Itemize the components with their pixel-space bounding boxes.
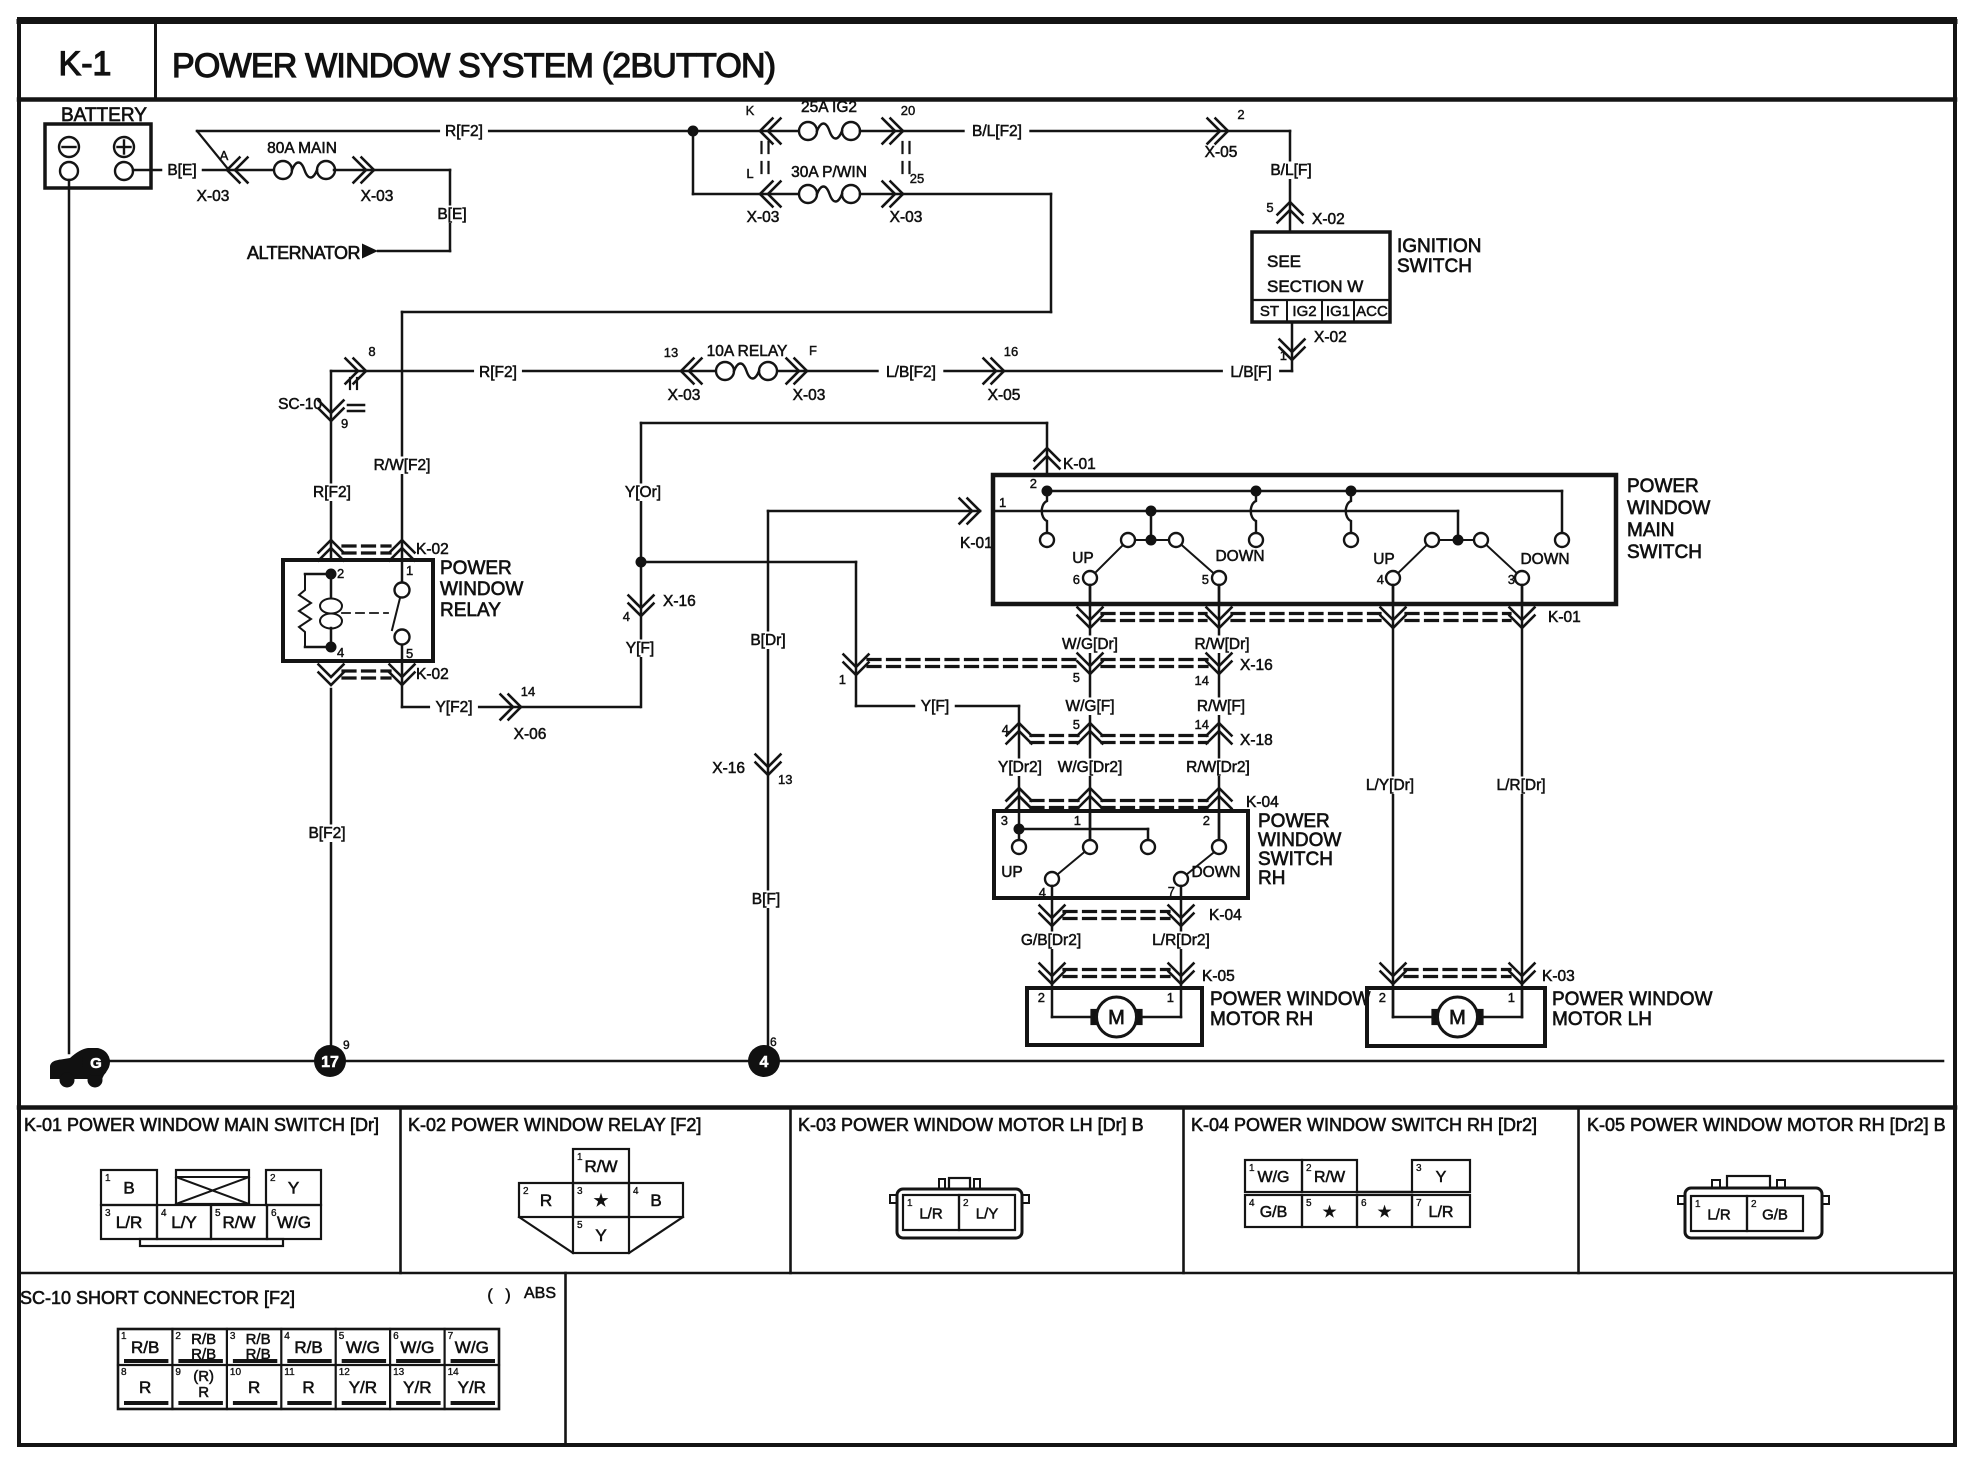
svg-text:X-03: X-03 — [197, 188, 230, 205]
svg-text:R[F2]: R[F2] — [479, 364, 517, 381]
svg-text:5: 5 — [406, 646, 413, 661]
svg-text:R/W: R/W — [584, 1157, 617, 1176]
svg-text:UP: UP — [1072, 550, 1094, 567]
svg-text:B: B — [650, 1191, 661, 1210]
svg-text:(R): (R) — [193, 1368, 214, 1385]
svg-text:W/G: W/G — [455, 1338, 489, 1357]
svg-text:SC-10: SC-10 — [278, 396, 322, 413]
svg-text:POWER WINDOW: POWER WINDOW — [1552, 989, 1712, 1010]
svg-text:5: 5 — [1202, 572, 1209, 587]
svg-text:BATTERY: BATTERY — [61, 105, 147, 126]
svg-text:B/L[F2]: B/L[F2] — [972, 123, 1022, 140]
svg-text:W/G: W/G — [400, 1338, 434, 1357]
svg-text:5: 5 — [1073, 670, 1080, 685]
svg-text:2: 2 — [963, 1198, 969, 1209]
svg-text:K-02: K-02 — [416, 666, 449, 683]
svg-text:UP: UP — [1373, 551, 1395, 568]
svg-text:R: R — [139, 1378, 151, 1397]
svg-text:B: B — [123, 1179, 134, 1198]
svg-text:POWER WINDOW: POWER WINDOW — [1210, 989, 1370, 1010]
svg-text:X-03: X-03 — [793, 387, 826, 404]
svg-text:ALTERNATOR: ALTERNATOR — [247, 243, 361, 263]
svg-text:L/Y: L/Y — [976, 1206, 999, 1223]
svg-text:K-03: K-03 — [1542, 968, 1575, 985]
svg-text:SWITCH: SWITCH — [1397, 256, 1472, 277]
svg-text:2: 2 — [1030, 476, 1037, 491]
svg-text:6: 6 — [1073, 572, 1080, 587]
svg-text:3: 3 — [1508, 572, 1515, 587]
svg-text:L/R: L/R — [919, 1206, 943, 1223]
svg-text:X-03: X-03 — [668, 387, 701, 404]
svg-text:DOWN: DOWN — [1215, 548, 1264, 565]
svg-text:X-02: X-02 — [1314, 329, 1347, 346]
svg-text:K-02: K-02 — [416, 541, 449, 558]
svg-text:Y[F2]: Y[F2] — [435, 699, 472, 716]
svg-text:Y: Y — [595, 1226, 606, 1245]
svg-text:2: 2 — [337, 566, 344, 581]
svg-text:W/G[Dr]: W/G[Dr] — [1062, 636, 1118, 653]
svg-text:R/W: R/W — [1314, 1169, 1346, 1186]
svg-text:L/B[F2]: L/B[F2] — [886, 364, 936, 381]
svg-text:3: 3 — [577, 1186, 583, 1197]
svg-text:2: 2 — [1379, 990, 1386, 1005]
svg-text:13: 13 — [778, 772, 792, 787]
svg-text:7: 7 — [1416, 1198, 1422, 1209]
svg-text:IG1: IG1 — [1326, 303, 1350, 320]
svg-text:30A P/WIN: 30A P/WIN — [791, 164, 867, 181]
svg-text:11: 11 — [284, 1367, 295, 1378]
svg-text:5: 5 — [1306, 1198, 1312, 1209]
svg-text:ABS: ABS — [524, 1285, 556, 1302]
svg-text:16: 16 — [1004, 344, 1018, 359]
svg-text:K-01: K-01 — [1063, 456, 1096, 473]
svg-text:8: 8 — [121, 1367, 127, 1378]
svg-text:4: 4 — [760, 1054, 769, 1071]
svg-text:F: F — [809, 343, 817, 358]
svg-text:W/G: W/G — [346, 1338, 380, 1357]
svg-text:4: 4 — [1249, 1198, 1255, 1209]
svg-text:Y: Y — [288, 1179, 299, 1198]
svg-text:4: 4 — [623, 609, 630, 624]
svg-text:L/R[Dr2]: L/R[Dr2] — [1152, 932, 1210, 949]
svg-text:MOTOR RH: MOTOR RH — [1210, 1009, 1313, 1030]
svg-text:1: 1 — [1508, 990, 1515, 1005]
svg-text:UP: UP — [1001, 864, 1023, 881]
svg-text:2: 2 — [175, 1331, 181, 1342]
svg-text:W/G: W/G — [277, 1213, 311, 1232]
svg-text:14: 14 — [521, 684, 535, 699]
svg-text:3: 3 — [105, 1208, 111, 1219]
svg-text:SWITCH: SWITCH — [1627, 542, 1702, 563]
svg-text:1: 1 — [907, 1198, 913, 1209]
svg-text:4: 4 — [633, 1186, 639, 1197]
svg-text:R: R — [198, 1384, 209, 1401]
svg-text:Y[F]: Y[F] — [921, 698, 949, 715]
svg-text:B[E]: B[E] — [167, 162, 196, 179]
svg-text:2: 2 — [1203, 813, 1210, 828]
svg-text:13: 13 — [393, 1367, 405, 1378]
svg-text:10A RELAY: 10A RELAY — [707, 343, 788, 360]
svg-text:6: 6 — [770, 1035, 777, 1049]
svg-text:1: 1 — [1167, 990, 1174, 1005]
svg-text:Y/R: Y/R — [403, 1378, 431, 1397]
svg-text:14: 14 — [1195, 717, 1209, 732]
svg-text:DOWN: DOWN — [1520, 551, 1569, 568]
svg-text:L/R: L/R — [116, 1213, 142, 1232]
svg-text:5: 5 — [215, 1208, 221, 1219]
svg-text:2: 2 — [270, 1173, 276, 1184]
svg-text:B[E]: B[E] — [437, 206, 466, 223]
svg-text:3: 3 — [1416, 1163, 1422, 1174]
svg-text:3: 3 — [1001, 813, 1008, 828]
svg-text:1: 1 — [105, 1173, 111, 1184]
svg-text:9: 9 — [343, 1038, 350, 1052]
svg-text:14: 14 — [1195, 673, 1209, 688]
svg-text:ST: ST — [1260, 303, 1279, 320]
svg-text:K-05 POWER WINDOW MOTOR RH [Dr: K-05 POWER WINDOW MOTOR RH [Dr2] B — [1587, 1115, 1946, 1135]
svg-text:R: R — [302, 1378, 314, 1397]
svg-text:2: 2 — [1306, 1163, 1312, 1174]
svg-text:L/B[F]: L/B[F] — [1230, 364, 1271, 381]
svg-text:4: 4 — [1039, 885, 1046, 900]
svg-text:2: 2 — [1038, 990, 1045, 1005]
svg-text:Y[Or]: Y[Or] — [625, 484, 661, 501]
svg-text:(: ( — [487, 1287, 493, 1304]
svg-text:SEE: SEE — [1267, 252, 1301, 271]
svg-text:SC-10 SHORT CONNECTOR [F2]: SC-10 SHORT CONNECTOR [F2] — [20, 1288, 295, 1308]
svg-text:25A IG2: 25A IG2 — [801, 99, 857, 116]
svg-text:L/Y: L/Y — [171, 1213, 197, 1232]
svg-text:10: 10 — [230, 1367, 242, 1378]
svg-text:1: 1 — [839, 672, 846, 687]
svg-text:★: ★ — [593, 1191, 608, 1210]
svg-text:DOWN: DOWN — [1191, 864, 1240, 881]
svg-text:1: 1 — [999, 495, 1006, 510]
svg-text:4: 4 — [1002, 722, 1009, 737]
svg-text:X-16: X-16 — [1240, 657, 1273, 674]
svg-text:MAIN: MAIN — [1627, 520, 1675, 541]
svg-text:K-04: K-04 — [1246, 794, 1279, 811]
svg-text:X-18: X-18 — [1240, 732, 1273, 749]
svg-text:R/B: R/B — [131, 1338, 159, 1357]
svg-text:POWER: POWER — [1627, 476, 1699, 497]
svg-text:L/R: L/R — [1707, 1207, 1731, 1224]
svg-text:7: 7 — [1168, 884, 1175, 899]
svg-text:R: R — [540, 1191, 552, 1210]
svg-text:X-05: X-05 — [988, 387, 1021, 404]
svg-text:G/B: G/B — [1260, 1204, 1288, 1221]
svg-text:1: 1 — [1249, 1163, 1255, 1174]
svg-text:R/B: R/B — [294, 1338, 322, 1357]
svg-text:5: 5 — [1266, 200, 1273, 215]
svg-text:L/R: L/R — [1429, 1204, 1454, 1221]
svg-text:K-04: K-04 — [1209, 907, 1242, 924]
svg-text:2: 2 — [1751, 1199, 1757, 1210]
svg-text:Y/R: Y/R — [349, 1378, 377, 1397]
svg-text:4: 4 — [284, 1331, 290, 1342]
svg-text:RELAY: RELAY — [440, 600, 501, 621]
svg-text:17: 17 — [321, 1054, 339, 1071]
svg-text:B[F2]: B[F2] — [308, 825, 345, 842]
svg-text:4: 4 — [1377, 572, 1384, 587]
svg-text:Y[F]: Y[F] — [626, 640, 654, 657]
svg-text:POWER WINDOW SYSTEM (2BUTTON): POWER WINDOW SYSTEM (2BUTTON) — [172, 47, 775, 85]
svg-text:2: 2 — [1237, 107, 1244, 122]
svg-text:L/R[Dr]: L/R[Dr] — [1496, 777, 1545, 794]
svg-text:4: 4 — [337, 645, 344, 660]
svg-text:W/G[F]: W/G[F] — [1065, 698, 1114, 715]
svg-text:X-03: X-03 — [747, 209, 780, 226]
svg-text:RH: RH — [1258, 868, 1285, 889]
svg-text:6: 6 — [393, 1331, 399, 1342]
svg-text:K-03 POWER WINDOW MOTOR LH [Dr: K-03 POWER WINDOW MOTOR LH [Dr] B — [798, 1115, 1144, 1135]
svg-text:W/G[Dr2]: W/G[Dr2] — [1058, 759, 1123, 776]
svg-text:K-01: K-01 — [1548, 609, 1581, 626]
svg-text:5: 5 — [1073, 717, 1080, 732]
svg-text:20: 20 — [901, 103, 915, 118]
svg-text:R/W[Dr]: R/W[Dr] — [1194, 636, 1249, 653]
svg-text:1: 1 — [121, 1331, 127, 1342]
svg-text:ACC: ACC — [1356, 303, 1388, 320]
svg-text:9: 9 — [341, 416, 348, 431]
svg-text:POWER: POWER — [1258, 811, 1330, 832]
svg-text:12: 12 — [339, 1367, 351, 1378]
svg-text:Y[Dr2]: Y[Dr2] — [998, 759, 1042, 776]
svg-text:X-16: X-16 — [712, 760, 745, 777]
svg-text:IG2: IG2 — [1292, 303, 1316, 320]
svg-text:8: 8 — [368, 344, 375, 359]
svg-text:1: 1 — [1074, 813, 1081, 828]
svg-text:1: 1 — [1280, 348, 1287, 363]
svg-text:7: 7 — [448, 1331, 454, 1342]
svg-text:X-06: X-06 — [514, 726, 547, 743]
svg-text:L: L — [746, 166, 753, 181]
svg-text:R/W[F]: R/W[F] — [1197, 698, 1245, 715]
svg-text:R[F2]: R[F2] — [313, 484, 351, 501]
svg-text:R/W[Dr2]: R/W[Dr2] — [1186, 759, 1250, 776]
svg-text:K-1: K-1 — [59, 45, 112, 83]
svg-text:1: 1 — [1695, 1199, 1701, 1210]
svg-text:WINDOW: WINDOW — [1258, 830, 1341, 851]
svg-text:1: 1 — [577, 1152, 583, 1163]
svg-text:25: 25 — [910, 171, 924, 186]
svg-text:1: 1 — [406, 563, 413, 578]
svg-text:K: K — [746, 103, 755, 118]
svg-text:R[F2]: R[F2] — [445, 123, 483, 140]
svg-text:MOTOR LH: MOTOR LH — [1552, 1009, 1652, 1030]
svg-text:14: 14 — [448, 1367, 460, 1378]
svg-text:★: ★ — [1377, 1204, 1391, 1221]
svg-text:Y/R: Y/R — [458, 1378, 486, 1397]
svg-text:R/W[F2]: R/W[F2] — [374, 457, 431, 474]
svg-text:3: 3 — [230, 1331, 236, 1342]
svg-text:13: 13 — [664, 345, 678, 360]
svg-text:L/Y[Dr]: L/Y[Dr] — [1366, 777, 1414, 794]
svg-text:9: 9 — [175, 1367, 181, 1378]
svg-text:M: M — [1108, 1007, 1125, 1029]
svg-text:G/B[Dr2]: G/B[Dr2] — [1021, 932, 1081, 949]
svg-text:POWER: POWER — [440, 558, 512, 579]
svg-text:5: 5 — [339, 1331, 345, 1342]
svg-text:X-03: X-03 — [890, 209, 923, 226]
svg-text:G: G — [90, 1055, 102, 1072]
svg-text:X-05: X-05 — [1205, 144, 1238, 161]
svg-text:2: 2 — [523, 1186, 529, 1197]
svg-text:SWITCH: SWITCH — [1258, 849, 1333, 870]
svg-text:K-01: K-01 — [960, 535, 993, 552]
svg-text:5: 5 — [577, 1220, 583, 1231]
svg-text:K-04 POWER WINDOW SWITCH RH [D: K-04 POWER WINDOW SWITCH RH [Dr2] — [1191, 1115, 1537, 1135]
svg-text:K-05: K-05 — [1202, 968, 1235, 985]
svg-text:R: R — [248, 1378, 260, 1397]
svg-text:IGNITION: IGNITION — [1397, 236, 1481, 257]
svg-text:★: ★ — [1322, 1204, 1336, 1221]
svg-text:B[Dr]: B[Dr] — [750, 632, 785, 649]
svg-text:WINDOW: WINDOW — [440, 579, 523, 600]
svg-text:X-03: X-03 — [361, 188, 394, 205]
svg-text:Y: Y — [1436, 1169, 1447, 1186]
svg-text:K-01 POWER WINDOW MAIN SWITCH: K-01 POWER WINDOW MAIN SWITCH [Dr] — [24, 1115, 379, 1135]
svg-text:R/W: R/W — [222, 1213, 255, 1232]
svg-text:): ) — [505, 1287, 510, 1304]
svg-text:W/G: W/G — [1258, 1169, 1290, 1186]
svg-text:SECTION W: SECTION W — [1267, 277, 1363, 296]
svg-text:6: 6 — [1361, 1198, 1367, 1209]
svg-text:WINDOW: WINDOW — [1627, 498, 1710, 519]
svg-text:M: M — [1449, 1007, 1466, 1029]
svg-text:80A MAIN: 80A MAIN — [267, 140, 337, 157]
svg-text:B[F]: B[F] — [752, 891, 780, 908]
svg-text:G/B: G/B — [1762, 1207, 1788, 1224]
svg-text:4: 4 — [161, 1208, 167, 1219]
svg-text:X-02: X-02 — [1312, 211, 1345, 228]
svg-text:B/L[F]: B/L[F] — [1270, 162, 1311, 179]
svg-text:X-16: X-16 — [663, 593, 696, 610]
svg-text:K-02 POWER WINDOW RELAY [F2]: K-02 POWER WINDOW RELAY [F2] — [408, 1115, 701, 1135]
